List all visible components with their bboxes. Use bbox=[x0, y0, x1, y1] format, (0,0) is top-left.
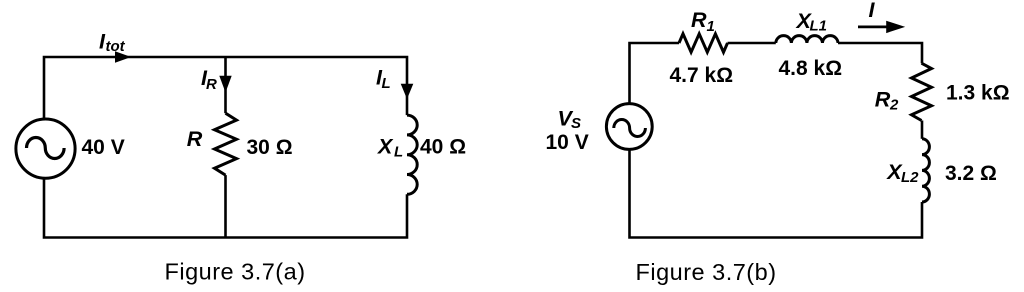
current arrow Itot bbox=[115, 51, 131, 62]
wire top bus (a) with left corner bbox=[44, 57, 407, 120]
wire middle branch upper (a) bbox=[224, 57, 227, 113]
svg-text:3.2 Ω: 3.2 Ω bbox=[945, 162, 997, 185]
wire bottom bus (a) with corners bbox=[44, 178, 407, 238]
AC source 40 V (a) bbox=[16, 119, 75, 178]
inductor XL1 bbox=[776, 36, 838, 43]
svg-text:40 Ω: 40 Ω bbox=[420, 136, 466, 159]
svg-text:1.3 kΩ: 1.3 kΩ bbox=[946, 82, 1010, 105]
wire top-right segment (b) with corner bbox=[838, 43, 922, 63]
svg-text:tot: tot bbox=[106, 38, 126, 55]
label XL bbox=[377, 135, 403, 161]
svg-text:L: L bbox=[382, 75, 391, 92]
resistor R bbox=[215, 113, 237, 175]
label IR bbox=[201, 66, 217, 93]
label R1 bbox=[691, 8, 715, 35]
svg-text:2: 2 bbox=[889, 97, 899, 114]
wire top-left segment (b) with corner bbox=[630, 43, 680, 105]
svg-text:1: 1 bbox=[707, 18, 715, 35]
current arrow IL bbox=[401, 84, 414, 99]
label Itot bbox=[99, 30, 126, 55]
label R2 bbox=[875, 88, 899, 114]
svg-text:4.8 kΩ: 4.8 kΩ bbox=[779, 57, 843, 80]
svg-text:X: X bbox=[377, 135, 394, 159]
AC source VS (b) bbox=[606, 104, 652, 150]
svg-text:I: I bbox=[869, 0, 876, 22]
label VS bbox=[558, 106, 582, 131]
current arrow IR bbox=[219, 76, 231, 93]
svg-text:L1: L1 bbox=[810, 18, 828, 35]
label IL bbox=[376, 66, 391, 93]
resistor R1 bbox=[679, 34, 728, 52]
wire between R1 and XL1 (b) bbox=[728, 42, 776, 45]
svg-text:Figure 3.7(a): Figure 3.7(a) bbox=[165, 259, 306, 285]
svg-text:L2: L2 bbox=[901, 169, 919, 186]
svg-text:R: R bbox=[187, 127, 203, 151]
svg-text:30 Ω: 30 Ω bbox=[247, 136, 293, 159]
label XL2 bbox=[886, 160, 919, 186]
label XL1 bbox=[796, 9, 828, 35]
svg-text:10 V: 10 V bbox=[546, 131, 589, 154]
resistor R2 bbox=[912, 63, 932, 120]
wire middle branch lower (a) bbox=[224, 175, 227, 237]
wire bottom bus (b) with corners bbox=[630, 149, 923, 238]
svg-text:L: L bbox=[394, 144, 403, 161]
svg-text:Figure 3.7(b): Figure 3.7(b) bbox=[636, 259, 777, 285]
svg-text:R: R bbox=[691, 8, 707, 32]
svg-text:R: R bbox=[206, 76, 217, 93]
wire right vertical middle (b) bbox=[921, 121, 924, 139]
svg-text:R: R bbox=[875, 88, 891, 112]
inductor XL2 bbox=[922, 139, 929, 202]
svg-text:4.7 kΩ: 4.7 kΩ bbox=[670, 64, 734, 87]
current arrow I bbox=[858, 21, 905, 33]
inductor XL bbox=[407, 115, 417, 194]
svg-text:S: S bbox=[571, 115, 581, 132]
svg-text:40 V: 40 V bbox=[82, 136, 125, 159]
